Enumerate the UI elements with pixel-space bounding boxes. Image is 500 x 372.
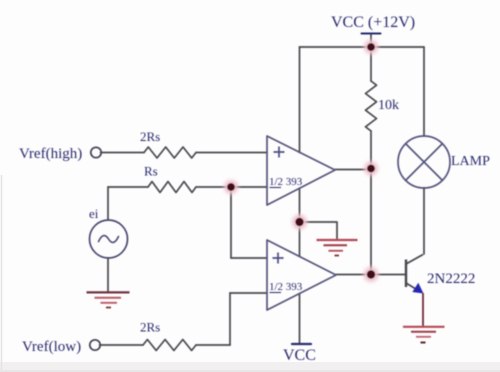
power bar VCC(+12V) <box>362 33 381 35</box>
wire ei bottom to ground <box>107 258 109 292</box>
power bar VCC bottom <box>292 343 311 345</box>
wire base <box>371 274 405 276</box>
op-amp U2 underline <box>270 292 282 294</box>
source ei circle <box>90 220 128 258</box>
node dot A (Rs junction) <box>224 180 238 194</box>
source ei sine <box>99 236 119 243</box>
node dot op1 output <box>364 162 378 176</box>
wire corner up <box>229 293 231 345</box>
node dot top rail <box>364 40 378 54</box>
op-amp U1 underline <box>270 187 282 189</box>
wire Vref(low) to 2Rs <box>100 344 143 346</box>
lamp X <box>406 144 443 181</box>
wire to op2 + input <box>231 257 267 259</box>
wire Rs to node A <box>196 186 231 188</box>
terminal Vref(low) <box>90 340 100 350</box>
wire node A down <box>230 187 232 258</box>
wire Vref(high) to 2Rs <box>101 152 144 154</box>
svg-text:VCC: VCC <box>283 347 316 364</box>
wire 2Rs to op1 + input <box>196 152 267 154</box>
svg-text:2N2222: 2N2222 <box>427 271 475 287</box>
svg-text:1/2 393: 1/2 393 <box>269 176 303 188</box>
wire 2Rs to corner <box>196 344 230 346</box>
svg-text:2Rs: 2Rs <box>140 320 160 335</box>
wire node A to op1 - input <box>231 186 267 188</box>
wire lamp top <box>423 47 425 136</box>
wire op1 output <box>335 169 371 171</box>
wire 10k bottom to node <box>370 131 372 169</box>
wire VCC top rail <box>300 46 425 48</box>
resistor 2Rs bottom <box>143 340 196 351</box>
wire lamp bottom to collector <box>423 188 425 254</box>
wire node B to op2 V+ <box>299 222 301 257</box>
svg-text:VCC (+12V): VCC (+12V) <box>331 14 415 31</box>
svg-text:ei: ei <box>89 206 99 221</box>
lamp circle <box>398 136 450 188</box>
wire ei to Rs <box>108 186 148 188</box>
svg-text:LAMP: LAMP <box>451 154 490 169</box>
svg-text:Vref(high): Vref(high) <box>19 146 82 162</box>
wire 10k top <box>370 47 372 81</box>
wire node B to ground lead <box>300 222 338 240</box>
node dot op2 output <box>364 267 379 282</box>
svg-text:Rs: Rs <box>144 164 158 179</box>
wire op2 output <box>336 274 371 276</box>
svg-text:2Rs: 2Rs <box>140 129 160 144</box>
resistor 10k <box>366 81 377 131</box>
op-amp U1 plus <box>274 147 285 158</box>
svg-text:10k: 10k <box>378 98 399 113</box>
resistor 2Rs top <box>144 147 196 158</box>
ground G1 (op-amps) <box>317 240 358 256</box>
wire VCC stub <box>370 34 372 48</box>
ground G2 (ei) <box>87 292 130 307</box>
svg-text:1/2 393: 1/2 393 <box>269 281 303 293</box>
ground G3 (transistor) <box>403 327 445 343</box>
transistor arrow <box>412 283 423 294</box>
wire emitter to ground <box>422 293 424 326</box>
wire to op2 - input <box>230 292 267 294</box>
wire op2 V- down <box>299 294 301 345</box>
terminal Vref(high) <box>91 147 101 157</box>
wire op1 V- to node B <box>299 189 301 223</box>
op-amp U1 <box>267 136 335 205</box>
wire ei top <box>107 187 109 220</box>
op-amp U2 <box>267 240 336 310</box>
wire op1 V+ pin <box>299 47 301 153</box>
node dot B (V+/V-) <box>292 215 307 230</box>
resistor Rs <box>148 182 196 193</box>
op-amp U2 plus <box>273 253 284 264</box>
wire outputs common vertical <box>370 169 372 275</box>
transistor Q1 2N2222 <box>406 255 423 291</box>
svg-text:Vref(low): Vref(low) <box>22 339 81 355</box>
